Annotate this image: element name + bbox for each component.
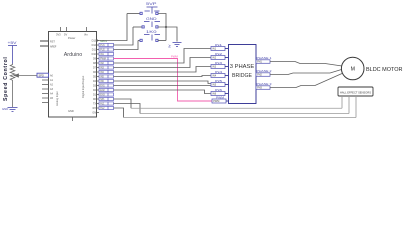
svg-text:GND: GND	[68, 109, 74, 113]
wire D2 to bridge IN6	[114, 90, 212, 94]
Arduino bottom pin GND stub	[72, 117, 74, 121]
svg-text:GND: GND	[2, 107, 8, 111]
wire D8 to bridge	[114, 49, 212, 64]
wire RX to hall bus 3	[114, 108, 124, 118]
svg-text:EN1: EN1	[100, 86, 105, 88]
svg-text:3 PHASE: 3 PHASE	[230, 64, 255, 70]
svg-text:IN3: IN3	[212, 66, 217, 69]
analog pin A5 stub	[42, 97, 49, 99]
svg-text:BRIDGE: BRIDGE	[232, 73, 252, 79]
wire D7 to bridge	[114, 58, 212, 68]
bridge output net box PHASE 3	[256, 86, 270, 90]
hall sensor wire 1	[341, 96, 343, 108]
Arduino U1 body	[49, 32, 97, 118]
svg-text:EN3: EN3	[100, 95, 105, 97]
svg-text:IN6: IN6	[212, 93, 217, 96]
bridge output net box PHASE 2	[256, 73, 270, 77]
net box D11	[99, 48, 114, 51]
svg-text:GND: GND	[146, 17, 158, 21]
wire D11 to row3	[114, 41, 139, 50]
bridge pin stubs left	[225, 49, 228, 102]
svg-text:PWM: PWM	[100, 59, 106, 61]
wire D4 to bridge	[114, 81, 212, 84]
net box D2	[99, 88, 114, 91]
svg-text:Digital Input/Output: Digital Input/Output	[81, 76, 85, 98]
wire D13 to row1	[97, 14, 127, 41]
svg-text:+5V: +5V	[8, 41, 18, 45]
junction row2/vertical	[165, 26, 167, 28]
svg-text:PHASE 2: PHASE 2	[257, 69, 273, 73]
wire D9 PWM (pink)	[114, 59, 213, 102]
svg-text:HL2: HL2	[100, 108, 105, 110]
wire phase3 to motor	[270, 74, 342, 88]
svg-text:M: M	[351, 67, 355, 73]
wire row1 right	[158, 14, 166, 41]
svg-text:AREF: AREF	[50, 45, 57, 48]
svg-text:BLDC MOTOR: BLDC MOTOR	[366, 67, 403, 73]
wire row3 right	[158, 40, 166, 42]
svg-text:D10: D10	[92, 53, 97, 56]
Arduino left pin RST	[40, 40, 49, 42]
svg-text:IN5: IN5	[212, 84, 217, 87]
potentiometer RV1 +5V power terminal	[8, 41, 18, 64]
analog pin A2 stub	[42, 84, 49, 86]
hall bus 3	[124, 117, 357, 119]
svg-text:IN2: IN2	[212, 57, 217, 60]
svg-text:D11: D11	[92, 49, 97, 52]
right digital pin labels D13..D0	[92, 40, 97, 115]
power terminal GND (row2)	[144, 17, 160, 27]
svg-text:PH2: PH2	[257, 74, 262, 77]
wire D6 to bridge	[114, 67, 212, 73]
wire row3 left	[138, 40, 140, 42]
svg-text:5VP: 5VP	[146, 2, 157, 6]
wire row2 left	[133, 26, 142, 28]
hall bus 2	[140, 113, 349, 115]
net box D6	[99, 70, 114, 73]
hall sensor wire 3	[355, 96, 357, 118]
net box RX	[99, 106, 114, 109]
svg-text:RX: RX	[93, 107, 97, 110]
wire D3 to bridge	[114, 85, 212, 87]
analog pin A3 stub	[42, 88, 49, 90]
svg-text:RST: RST	[50, 40, 55, 43]
svg-text:HL1: HL1	[100, 104, 105, 106]
bridge output net box PHASE 1	[256, 60, 270, 64]
ground symbol (top components)	[173, 43, 182, 47]
hall effect sensors box	[338, 87, 373, 96]
Arduino top pin 3V3	[60, 27, 62, 32]
potentiometer wiper arrow	[14, 74, 37, 77]
wire row2 right	[158, 27, 177, 42]
svg-text:PH3: PH3	[257, 87, 262, 90]
wire phase2 to motor	[270, 70, 342, 75]
analog pin A6 stub	[42, 102, 49, 104]
pin D13 junction	[96, 39, 98, 41]
component C3 pads row3	[140, 39, 158, 41]
Arduino top pin Vin	[86, 27, 88, 32]
svg-text:5V: 5V	[64, 33, 67, 37]
svg-text:PU2: PU2	[100, 50, 105, 52]
wire D12 to row2	[114, 27, 134, 45]
svg-text:D12: D12	[92, 44, 97, 47]
potentiometer RV1 (speed control)	[10, 64, 15, 82]
net box D0	[99, 97, 114, 100]
ground symbol (pot)	[8, 108, 18, 112]
net box D5	[99, 75, 114, 78]
svg-text:EN2: EN2	[100, 90, 105, 92]
svg-text:HALL EFFECT SENSORS: HALL EFFECT SENSORS	[340, 90, 371, 94]
net box TX	[99, 102, 114, 105]
svg-text:PHASE 3: PHASE 3	[257, 82, 273, 86]
svg-text:SPD: SPD	[39, 74, 44, 78]
3 phase bridge U2	[229, 45, 257, 104]
svg-text:Power: Power	[68, 36, 75, 40]
Arduino left pin AREF	[40, 45, 49, 47]
power terminal 5VP	[145, 2, 160, 14]
svg-text:D13: D13	[92, 40, 97, 43]
svg-text:1K0: 1K0	[146, 30, 157, 34]
wire TX to hall bus 2	[114, 104, 141, 114]
net label box A0 (pot to Arduino)	[37, 73, 49, 77]
net box D9	[99, 57, 114, 60]
net box D3	[99, 84, 114, 87]
svg-text:IN1: IN1	[212, 48, 217, 51]
net label boxes on right pins	[99, 43, 114, 110]
Arduino top pin 5V	[66, 27, 68, 32]
component C1 pads row1	[140, 12, 158, 14]
right pin stubs	[97, 41, 100, 113]
analog pin A4 stub	[42, 93, 49, 95]
net box D1	[99, 93, 114, 96]
svg-text:Arduino: Arduino	[64, 52, 83, 58]
svg-text:SP1: SP1	[100, 99, 105, 101]
svg-text:PH1: PH1	[257, 61, 262, 64]
svg-text:SPD1: SPD1	[100, 39, 107, 43]
net box dividers	[107, 43, 109, 109]
wire D5 to bridge	[114, 76, 212, 77]
component C2 pads row2	[142, 26, 158, 28]
net box D7	[99, 66, 114, 69]
power terminal 1K0 (row3)	[144, 30, 160, 41]
net box D4	[99, 79, 114, 82]
net box D8	[99, 61, 114, 64]
svg-text:Speed Control: Speed Control	[3, 56, 9, 101]
svg-text:IN4: IN4	[212, 75, 217, 78]
svg-text:Vin: Vin	[84, 33, 88, 37]
net box D10	[99, 52, 114, 55]
svg-text:TX: TX	[93, 103, 96, 106]
pot ground wire	[12, 82, 14, 108]
svg-text:PWM: PWM	[171, 55, 179, 59]
analog pin A1 stub	[42, 79, 49, 81]
svg-text:0V: 0V	[168, 44, 172, 48]
wire row1 left	[127, 13, 140, 15]
svg-text:PWM: PWM	[213, 100, 219, 103]
net box D12	[99, 43, 114, 46]
wire phase1 to motor	[270, 62, 342, 67]
svg-text:GN: GN	[92, 112, 96, 115]
wire D0 to hall bus 1	[114, 99, 132, 108]
svg-text:PHASE 1: PHASE 1	[257, 56, 273, 60]
hall bus 1	[131, 107, 342, 109]
hall sensor wire 2	[348, 96, 350, 114]
svg-text:3V3: 3V3	[56, 33, 61, 37]
svg-text:PU1: PU1	[100, 45, 105, 47]
svg-text:Analog Input: Analog Input	[55, 91, 59, 106]
BLDC motor M1	[341, 57, 364, 80]
